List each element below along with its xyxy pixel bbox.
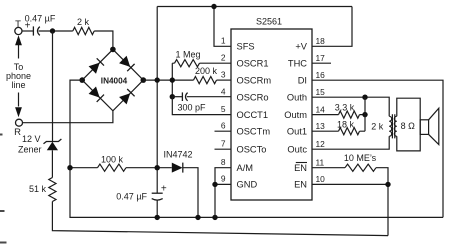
svg-text:100 k: 100 k bbox=[101, 155, 124, 165]
svg-text:13: 13 bbox=[316, 121, 326, 131]
node 100k left junction bbox=[67, 165, 72, 170]
zener diode 12V triangle bbox=[47, 142, 58, 151]
svg-text:5: 5 bbox=[221, 104, 226, 114]
terminal R bbox=[16, 119, 23, 126]
svg-text:A/M: A/M bbox=[237, 163, 254, 173]
node C1 / zener junction bbox=[50, 28, 55, 33]
wire 2k to bridge top bbox=[94, 31, 113, 49]
svg-text:12: 12 bbox=[316, 139, 326, 149]
capacitor C1 curved plate bbox=[38, 27, 40, 36]
node bridge left vertex bbox=[79, 77, 85, 83]
wire A/M pin 8 bbox=[215, 168, 231, 185]
resistor R4 1 Meg bbox=[172, 62, 231, 64]
svg-text:R: R bbox=[14, 127, 21, 138]
node junction top rail / pin 1 bbox=[211, 4, 216, 9]
zener diode 12V bar bbox=[44, 139, 62, 144]
svg-text:51 k: 51 k bbox=[29, 184, 47, 194]
node RC rail / OSCRo bbox=[170, 94, 175, 99]
diode bridge top-left bbox=[89, 63, 100, 74]
node RC rail / OSCRm bbox=[170, 77, 175, 82]
svg-text:18: 18 bbox=[316, 36, 326, 46]
wire node to zener bbox=[52, 31, 54, 141]
node bottom rail / IN4742 bbox=[195, 215, 200, 220]
svg-text:10: 10 bbox=[316, 174, 326, 184]
transformer T1 primary coil bbox=[389, 116, 392, 136]
svg-text:line: line bbox=[11, 80, 25, 90]
svg-text:EN: EN bbox=[294, 180, 307, 190]
svg-text:+: + bbox=[161, 183, 167, 194]
svg-text:1: 1 bbox=[221, 36, 226, 46]
svg-text:300 pF: 300 pF bbox=[177, 103, 206, 113]
wire 100k to diode IN4742 bbox=[126, 167, 172, 169]
wire output summing vertical bbox=[364, 97, 366, 131]
svg-text:9: 9 bbox=[221, 174, 226, 184]
wire OSCTm stub pin 6 bbox=[215, 130, 232, 132]
svg-text:OSCTm: OSCTm bbox=[237, 126, 271, 136]
wire secondary loop bbox=[397, 98, 420, 151]
svg-text:6: 6 bbox=[221, 120, 226, 130]
svg-text:Outc: Outc bbox=[287, 144, 307, 154]
svg-text:2 k: 2 k bbox=[371, 121, 384, 131]
resistor R3 100k bbox=[98, 164, 127, 171]
svg-text:0.47 µF: 0.47 µF bbox=[116, 191, 147, 201]
wire rail to 300pF bbox=[172, 96, 182, 98]
wire EN pin 10 bbox=[312, 183, 388, 185]
resistor R6 3.3k bbox=[312, 114, 365, 116]
wire pin1 SFS to top rail bbox=[214, 7, 231, 47]
wire 51k to bottom rail C bbox=[52, 202, 388, 236]
svg-text:2: 2 bbox=[221, 52, 226, 62]
node A/M GND junction bbox=[212, 182, 217, 187]
svg-text:OSCR1: OSCR1 bbox=[237, 58, 269, 68]
svg-text:12 V: 12 V bbox=[22, 134, 41, 144]
op-amp U1 S2561 body bbox=[231, 29, 312, 200]
svg-text:17: 17 bbox=[316, 53, 326, 63]
svg-text:OSCRm: OSCRm bbox=[237, 75, 272, 85]
wire RC rail bbox=[171, 63, 173, 96]
svg-text:EN: EN bbox=[294, 163, 307, 173]
svg-text:OCCT1: OCCT1 bbox=[237, 110, 269, 120]
wire bridge left vertex down to bottom rail bbox=[70, 80, 443, 217]
wire IN4742 to bottom rail bbox=[183, 168, 198, 218]
svg-text:IN4004: IN4004 bbox=[101, 76, 128, 85]
svg-text:GND: GND bbox=[237, 180, 258, 190]
capacitor C2 0.47uF plus plate bbox=[152, 192, 163, 194]
terminal T bbox=[15, 27, 22, 34]
svg-text:Outh: Outh bbox=[287, 92, 307, 102]
svg-text:+V: +V bbox=[295, 42, 307, 52]
capacitor C3 300pF curved plate bbox=[186, 93, 188, 101]
node Outm junction bbox=[362, 112, 367, 117]
diode bridge top-right bbox=[119, 56, 130, 67]
capacitor C3 300pF left plate bbox=[181, 92, 183, 101]
svg-text:1 Meg: 1 Meg bbox=[175, 49, 200, 59]
svg-text:Zener: Zener bbox=[18, 145, 42, 155]
svg-text:14: 14 bbox=[316, 104, 326, 114]
transformer T1 secondary coil bbox=[394, 116, 397, 136]
wire Outh pin 15 to transformer bbox=[312, 97, 389, 116]
wire left vertical rail bbox=[156, 7, 158, 218]
node rail crossing on DC+ line bbox=[155, 77, 160, 82]
transformer T1 core bbox=[392, 114, 394, 138]
svg-text:0.47 µF: 0.47 µF bbox=[25, 13, 56, 23]
wire top rail bbox=[157, 6, 352, 8]
node EN junction bbox=[385, 182, 390, 187]
resistor R8 10 ME's bbox=[312, 168, 388, 236]
svg-text:2 k: 2 k bbox=[77, 17, 90, 27]
node Outh junction bbox=[362, 95, 367, 100]
wire left rail to 100k bbox=[70, 167, 98, 169]
artifact marks bbox=[0, 135, 7, 243]
svg-text:S2561: S2561 bbox=[256, 17, 282, 27]
node rail / 100k line junction bbox=[155, 165, 160, 170]
svg-text:THC: THC bbox=[288, 58, 307, 68]
capacitor C1 0.47uF plus plate bbox=[32, 26, 34, 35]
wire THC stub pin 17 bbox=[312, 62, 331, 64]
node bridge right vertex bbox=[141, 77, 147, 83]
wire T to capacitor bbox=[22, 30, 33, 32]
resistor R1 2k bbox=[73, 27, 94, 34]
wire bridge right vertex to OSCRm rail bbox=[143, 79, 193, 81]
diode D5 IN4742 bbox=[172, 163, 183, 173]
svg-text:IN4742: IN4742 bbox=[163, 150, 192, 160]
capacitor C2 curved plate bbox=[152, 199, 163, 201]
svg-text:Outm: Outm bbox=[284, 110, 307, 120]
svg-text:8 Ω: 8 Ω bbox=[401, 121, 416, 131]
node bottom rail / GND bbox=[212, 215, 217, 220]
wire OCCT1 to RC rail bbox=[172, 97, 231, 115]
resistor R5 200k bbox=[194, 77, 217, 84]
node bottom rail / rail bbox=[155, 215, 160, 220]
svg-text:OSCTo: OSCTo bbox=[237, 144, 267, 154]
svg-text:3: 3 bbox=[221, 69, 226, 79]
svg-text:DI: DI bbox=[298, 75, 307, 85]
svg-text:8: 8 bbox=[221, 157, 226, 167]
wire Outc pin 12 to transformer bbox=[312, 136, 389, 149]
bridge rectifier IN4004 diamond bbox=[82, 49, 143, 110]
speaker LS1 bbox=[420, 120, 428, 135]
wire OSCTo stub pin 7 bbox=[215, 148, 232, 150]
svg-text:Out1: Out1 bbox=[287, 126, 307, 136]
svg-text:OSCRo: OSCRo bbox=[237, 92, 269, 102]
resistor R7 18k bbox=[312, 130, 365, 132]
svg-text:7: 7 bbox=[221, 138, 226, 148]
wire GND pin 9 bbox=[215, 184, 231, 217]
svg-text:4: 4 bbox=[221, 86, 226, 96]
svg-text:16: 16 bbox=[316, 70, 326, 80]
wire 300pF to OSCRo bbox=[187, 96, 231, 98]
resistor R2 51k bbox=[49, 178, 56, 202]
wire pin18 +V to top rail bbox=[312, 7, 352, 47]
svg-text:200 k: 200 k bbox=[195, 66, 218, 76]
svg-text:15: 15 bbox=[316, 87, 326, 97]
wire zener to 51k bbox=[51, 150, 53, 177]
arrow to T terminal bbox=[18, 43, 20, 59]
diode bridge bottom-right bbox=[119, 93, 130, 104]
diode bridge bottom-left bbox=[89, 87, 100, 98]
wire DI pin 16 right loop bbox=[312, 80, 443, 217]
svg-text:10 ME’s: 10 ME’s bbox=[344, 153, 377, 163]
arrow to R terminal bbox=[18, 93, 20, 107]
svg-text:SFS: SFS bbox=[237, 42, 255, 52]
svg-text:T: T bbox=[15, 19, 21, 30]
wire capacitor to node bbox=[39, 30, 73, 32]
wire R to bridge bottom bbox=[22, 111, 113, 123]
svg-text:18 k: 18 k bbox=[337, 120, 355, 130]
node bridge top vertex bbox=[110, 47, 116, 53]
svg-text:11: 11 bbox=[316, 158, 325, 168]
svg-text:3.3 k: 3.3 k bbox=[335, 103, 355, 113]
